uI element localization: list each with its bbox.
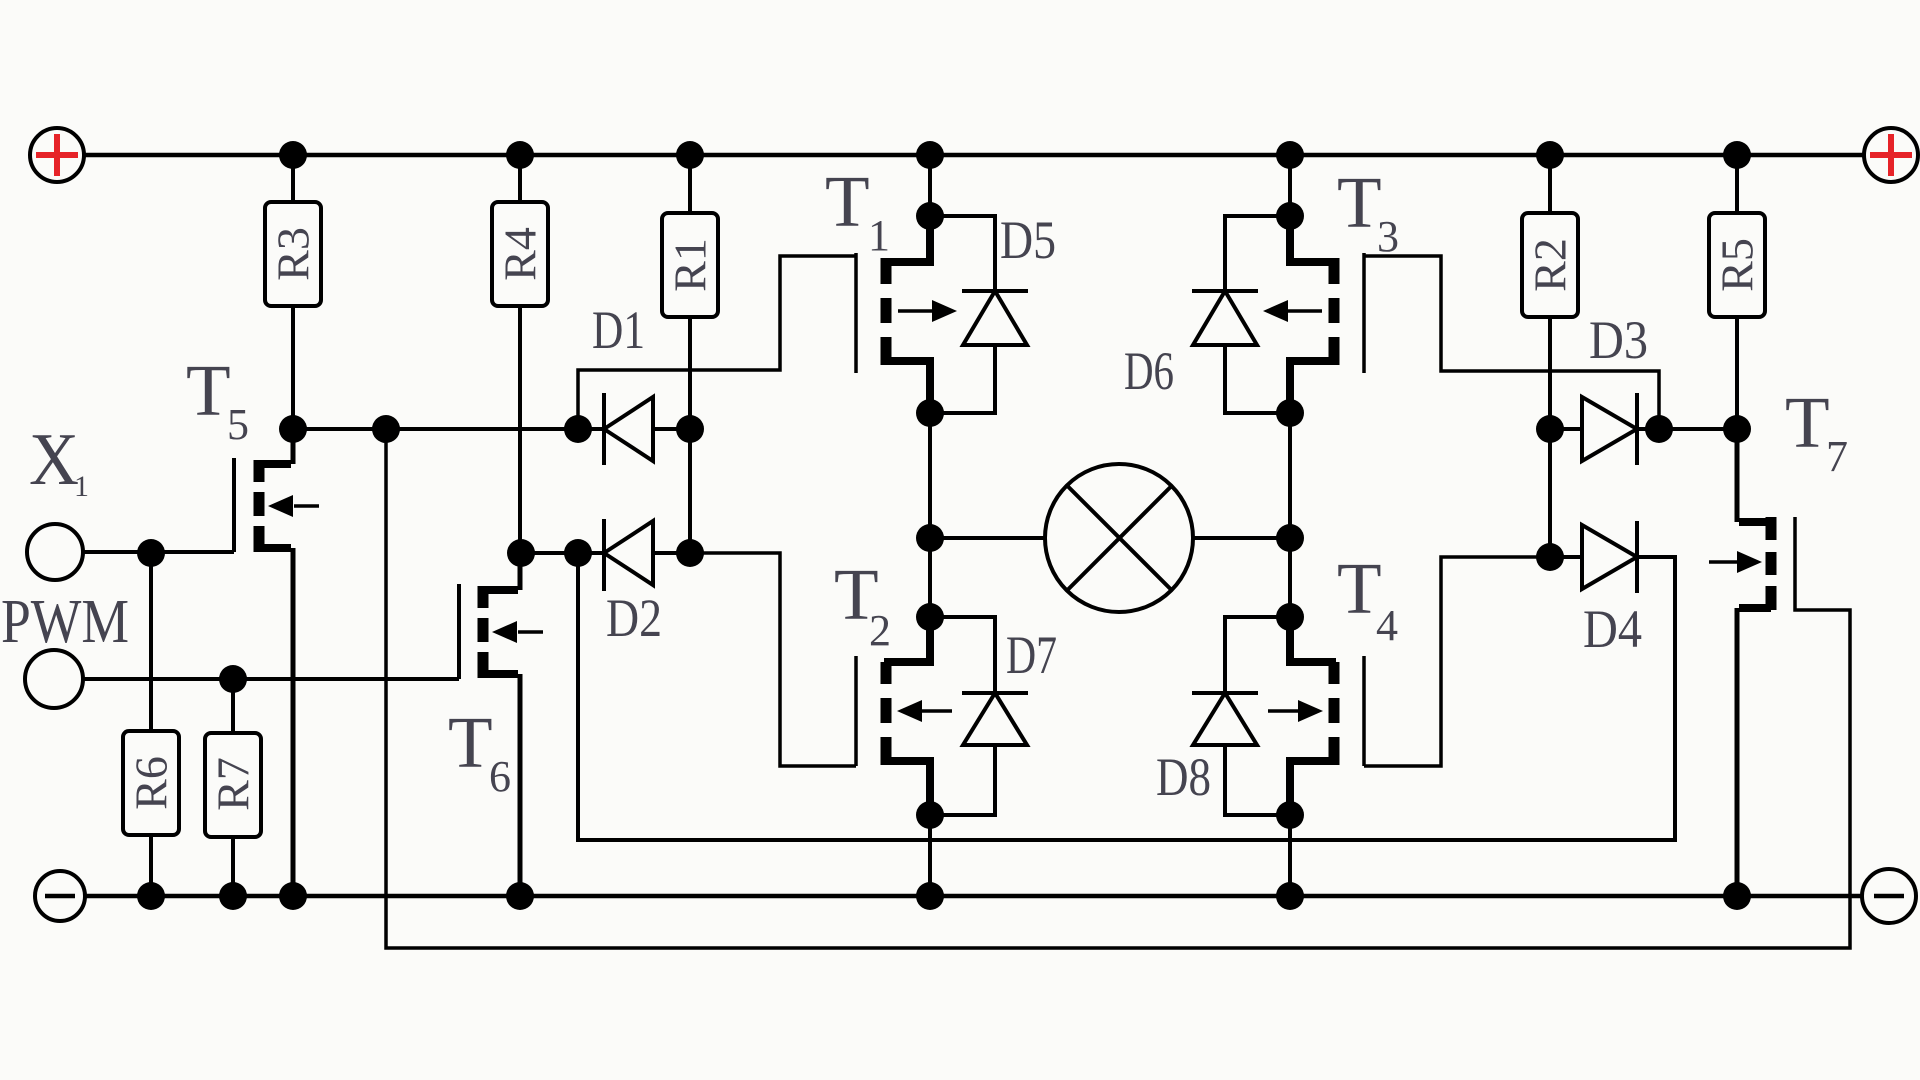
svg-text:PWM: PWM (1, 588, 129, 656)
svg-text:T: T (1337, 548, 1382, 629)
svg-text:D7: D7 (1006, 625, 1057, 685)
svg-text:R6: R6 (126, 756, 177, 810)
svg-text:4: 4 (1376, 601, 1398, 650)
svg-text:R5: R5 (1712, 238, 1763, 292)
svg-text:1: 1 (868, 211, 890, 260)
svg-text:D2: D2 (606, 588, 662, 648)
svg-text:R2: R2 (1525, 238, 1576, 292)
svg-text:2: 2 (869, 606, 891, 655)
svg-text:D4: D4 (1583, 599, 1642, 659)
svg-text:D6: D6 (1124, 341, 1174, 401)
svg-text:D3: D3 (1589, 310, 1648, 370)
svg-text:R7: R7 (208, 757, 259, 811)
svg-text:T: T (448, 702, 493, 783)
svg-text:X: X (29, 419, 79, 501)
svg-text:T: T (1337, 162, 1382, 243)
svg-text:D8: D8 (1156, 747, 1211, 807)
svg-text:R3: R3 (268, 227, 319, 281)
svg-text:5: 5 (227, 400, 249, 449)
svg-text:T: T (1785, 382, 1830, 463)
svg-text:R4: R4 (495, 227, 546, 281)
svg-text:D1: D1 (592, 300, 645, 360)
svg-text:3: 3 (1377, 212, 1399, 261)
svg-text:7: 7 (1826, 432, 1848, 481)
svg-text:R1: R1 (665, 238, 716, 292)
svg-text:6: 6 (489, 752, 511, 801)
svg-text:D5: D5 (1000, 210, 1056, 270)
svg-text:1: 1 (74, 470, 89, 503)
svg-text:T: T (186, 350, 231, 431)
svg-text:T: T (825, 161, 870, 242)
